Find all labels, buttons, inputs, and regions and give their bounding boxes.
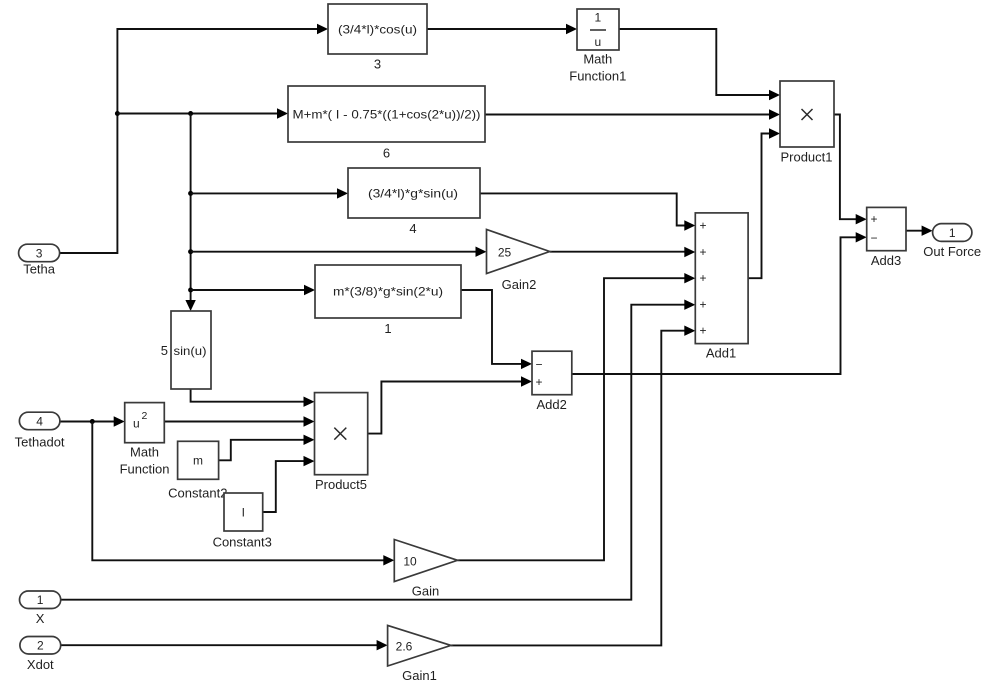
node junction to block 4: [188, 191, 193, 196]
svg-text:Add1: Add1: [706, 346, 736, 361]
svg-text:+: +: [700, 324, 707, 338]
node junction to block 1: [188, 288, 193, 293]
svg-text:−: −: [871, 231, 878, 245]
svg-text:Add2: Add2: [537, 397, 567, 412]
svg-text:(3/4*l)*cos(u): (3/4*l)*cos(u): [338, 23, 417, 37]
wire Gain2 to Add1 in2: [550, 247, 696, 257]
wire block 3 to Math Function1: [427, 24, 577, 34]
wire X to Add1 in4: [61, 300, 696, 600]
svg-text:25: 25: [498, 245, 512, 259]
svg-text:Tethadot: Tethadot: [15, 435, 65, 450]
block Add3: [867, 207, 906, 268]
svg-text:X: X: [36, 611, 45, 626]
svg-text:2: 2: [37, 639, 44, 653]
wire block 4 to Add1 in1: [480, 193, 695, 230]
wire Constant3 to Product5 in4: [263, 456, 315, 512]
svg-text:2.6: 2.6: [396, 639, 413, 653]
wire block 6 to Product1 in2: [485, 109, 780, 119]
svg-text:6: 6: [383, 146, 390, 161]
svg-text:m*(3/8)*g*sin(2*u): m*(3/8)*g*sin(2*u): [333, 285, 443, 299]
svg-text:Math: Math: [130, 445, 159, 460]
svg-text:1: 1: [37, 593, 44, 607]
block 4 Fcn (3/4*l)*g*sin(u): [348, 168, 480, 236]
wire Gain to Add1 in3: [458, 273, 696, 560]
wire branch to block 6: [117, 108, 288, 118]
block Constant3 l: [213, 493, 272, 550]
svg-text:Gain2: Gain2: [502, 277, 537, 292]
op-amp Math Function1 1/u: [569, 9, 626, 84]
svg-text:Gain1: Gain1: [402, 668, 437, 683]
wire Math Function1 to Product1 in1: [619, 29, 780, 100]
svg-text:1: 1: [594, 11, 601, 25]
node junction vertical drop x190: [188, 111, 193, 116]
wire Tetha trunk to block 3: [60, 24, 328, 253]
block 1 Fcn m*(3/8)*g*sin(2*u): [315, 265, 461, 336]
port input 4 Tethadot: [15, 412, 65, 449]
svg-text:+: +: [871, 212, 878, 226]
svg-text:u: u: [594, 35, 601, 49]
svg-text:Constant3: Constant3: [213, 535, 272, 550]
svg-text:Function: Function: [120, 462, 170, 477]
svg-text:1: 1: [384, 321, 391, 336]
wire Constant2 to Product5 in3: [219, 435, 315, 461]
svg-text:10: 10: [403, 554, 417, 568]
wire sin(u) to Product5 in1: [191, 389, 315, 407]
block Product1: [780, 81, 834, 165]
block Add1: [695, 213, 748, 361]
block 6 Fcn M+m*(I-0.75*((1+cos(2*u))/2)): [288, 86, 485, 161]
block Constant2 m: [168, 441, 227, 500]
svg-text:(3/4*l)*g*sin(u): (3/4*l)*g*sin(u): [368, 187, 458, 201]
port input 1 X: [20, 591, 61, 626]
svg-text:3: 3: [374, 57, 381, 72]
svg-text:+: +: [700, 271, 707, 285]
block 3 Fcn (3/4*l)*cos(u): [328, 4, 427, 72]
svg-text:5: 5: [161, 343, 168, 358]
node junction Tethadot branch: [90, 419, 95, 424]
svg-text:Xdot: Xdot: [27, 657, 54, 672]
svg-text:+: +: [700, 245, 707, 259]
svg-text:4: 4: [36, 414, 43, 428]
svg-text:m: m: [193, 454, 203, 468]
wire u2 to Product5 in2: [164, 416, 314, 426]
svg-text:Out Force: Out Force: [923, 244, 981, 259]
wire branch to Gain2: [191, 247, 487, 257]
svg-text:Function1: Function1: [569, 69, 626, 84]
svg-text:+: +: [536, 375, 543, 389]
block 5 Fcn sin(u): [161, 311, 211, 389]
svg-text:Add3: Add3: [871, 253, 901, 268]
svg-text:1: 1: [949, 226, 956, 240]
gain Gain2 25: [487, 230, 550, 293]
wire block 1 to Add2 minus: [461, 290, 532, 369]
node junction to Gain2: [188, 249, 193, 254]
svg-text:3: 3: [36, 246, 43, 260]
svg-text:M+m*( I - 0.75*((1+cos(2*u))/2: M+m*( I - 0.75*((1+cos(2*u))/2)): [293, 108, 481, 122]
wire Tethadot branch to Gain: [92, 422, 394, 566]
wire Xdot to Gain1: [61, 640, 388, 650]
svg-text:I: I: [242, 506, 245, 520]
block Math Function u^2: [120, 403, 170, 477]
gain Gain1 2.6: [388, 625, 451, 683]
svg-text:Product5: Product5: [315, 477, 367, 492]
node junction Tetha trunk at y113: [115, 111, 120, 116]
svg-text:2: 2: [142, 410, 148, 422]
wire branch to block 1: [191, 285, 315, 295]
wire Gain1 to Add1 in5: [451, 326, 695, 646]
block Product5: [315, 393, 368, 492]
port output 1 Out Force: [923, 224, 981, 259]
wire vertical drop to sin(u): [185, 114, 195, 312]
svg-text:+: +: [700, 298, 707, 312]
svg-text:4: 4: [409, 221, 416, 236]
port input 3 Tetha: [19, 244, 60, 276]
port input 2 Xdot: [20, 637, 61, 673]
block Add2: [532, 351, 572, 412]
svg-text:u: u: [133, 417, 140, 431]
wire Add2 to Add3 minus: [572, 232, 867, 374]
svg-text:Math: Math: [583, 52, 612, 67]
wire Add3 to Out Force: [906, 226, 933, 236]
wire branch to block 4: [191, 188, 348, 198]
svg-text:Tetha: Tetha: [23, 262, 56, 277]
wire Product5 to Add2 plus: [368, 376, 532, 433]
svg-text:Constant2: Constant2: [168, 486, 227, 501]
wire Tethadot to Math Function u2: [60, 416, 125, 426]
svg-text:sin(u): sin(u): [174, 344, 207, 358]
svg-text:Gain: Gain: [412, 584, 439, 599]
svg-text:−: −: [536, 357, 543, 371]
svg-text:Product1: Product1: [780, 150, 832, 165]
gain Gain 10: [394, 540, 457, 599]
wire Add1 to Product1 in3: [748, 128, 780, 278]
svg-text:+: +: [700, 219, 707, 233]
wire Product1 to Add3 plus: [834, 115, 867, 225]
